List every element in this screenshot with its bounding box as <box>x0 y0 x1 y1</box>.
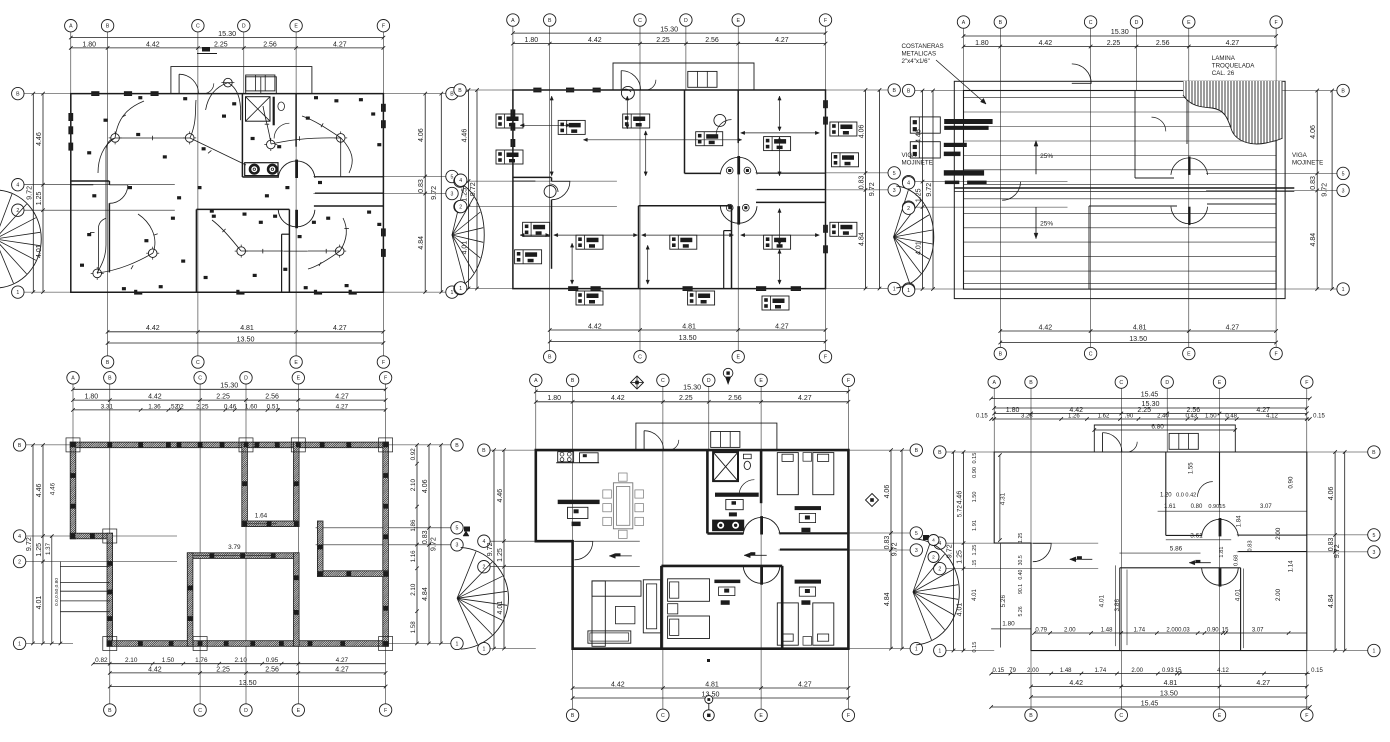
foundation wall at E bath (plan 4) <box>294 442 300 526</box>
pin marker bottom (plan 5) <box>705 696 713 704</box>
pin marker bottom2 (plan 5) <box>707 659 710 662</box>
entry door arc (plan 6) <box>1102 433 1104 452</box>
svg-text:2.56: 2.56 <box>705 37 719 44</box>
sofa set and coffee table (plan 5) <box>592 581 641 596</box>
column grid bubbles bottom (plan 5 furniture) <box>566 709 578 721</box>
bottom segment dimensions (plan 4 foundation) <box>110 672 386 674</box>
column grid extension lines (plan 5 furniture) <box>535 387 537 451</box>
opening tag box (plan 2) <box>670 235 697 249</box>
interior jog wall A-B (plan 1) <box>71 180 110 182</box>
svg-text:F: F <box>1275 351 1278 357</box>
left dimension line 4.46/1.25/4.01 (plan 4 foundation) <box>42 445 44 644</box>
svg-text:1.50: 1.50 <box>972 491 978 502</box>
room label tag top-right (plan 5) <box>795 506 821 510</box>
spiral stair fan (between plans 4 and 5) <box>461 547 509 649</box>
svg-text:4.42: 4.42 <box>146 325 160 332</box>
svg-text:0.79: 0.79 <box>1035 628 1047 634</box>
conduit tick marks (plan 1) <box>152 136 154 141</box>
svg-text:LAMINA: LAMINA <box>1212 55 1236 62</box>
svg-text:2.00: 2.00 <box>1027 668 1039 674</box>
svg-text:1.80: 1.80 <box>85 394 99 401</box>
svg-text:4.42: 4.42 <box>1069 680 1083 687</box>
svg-text:0.93: 0.93 <box>1162 668 1174 674</box>
svg-text:2.000.03: 2.000.03 <box>1166 628 1190 634</box>
svg-text:4.42: 4.42 <box>588 323 602 330</box>
top segment dimensions 1.80/4.42/2.25/2.56/4.27 (plan 2 openings) <box>513 43 826 45</box>
right dimension line 4.06/0.83/4.84 (plan 2 openings) <box>865 90 867 289</box>
svg-text:6.80: 6.80 <box>1151 424 1164 431</box>
svg-text:4.42: 4.42 <box>1039 324 1053 331</box>
svg-text:4.01: 4.01 <box>1099 594 1106 607</box>
svg-text:4: 4 <box>459 178 462 184</box>
interior wall at B lower (plan 1) <box>108 203 110 272</box>
svg-text:B: B <box>458 88 462 94</box>
svg-text:0.15: 0.15 <box>992 668 1004 674</box>
svg-text:0.82: 0.82 <box>95 657 108 664</box>
window dashes on walls (plan 1) <box>68 113 70 121</box>
column grid bubbles top (plan 5 furniture) <box>530 374 542 386</box>
svg-text:2.25: 2.25 <box>1137 407 1151 414</box>
right overall dimension 9.72 (plan 5 furniture) <box>901 450 903 648</box>
svg-text:2.25: 2.25 <box>679 395 693 402</box>
svg-text:2: 2 <box>907 206 910 212</box>
svg-text:C: C <box>1089 20 1093 26</box>
svg-text:13.50: 13.50 <box>679 333 697 342</box>
svg-text:C: C <box>1119 713 1123 719</box>
svg-text:1.50: 1.50 <box>162 657 175 664</box>
column grid extension lines (plan 6 dimensions) <box>993 388 995 452</box>
svg-text:F: F <box>384 376 387 382</box>
top segment dimensions 1.80/4.42/2.25/2.56/4.27 (plan 3 roof) <box>964 46 1277 48</box>
foundation wall bottom (plan 4) <box>107 641 388 647</box>
svg-text:13.50: 13.50 <box>239 678 257 687</box>
roof fascia outline (plan 3) <box>954 81 1285 298</box>
svg-text:0.90: 0.90 <box>1207 628 1219 634</box>
svg-text:D: D <box>242 24 246 30</box>
svg-text:4.06: 4.06 <box>859 124 866 138</box>
svg-text:4.46: 4.46 <box>462 129 469 143</box>
shower with X (plan 5) <box>713 452 738 481</box>
outer dim 15.45 (plan 6) <box>991 398 1310 400</box>
svg-text:0.15: 0.15 <box>976 414 988 420</box>
svg-text:0.40: 0.40 <box>1018 569 1024 579</box>
column grid bubbles top (plan 2 openings) <box>507 14 519 26</box>
svg-text:15.30: 15.30 <box>660 24 678 33</box>
svg-text:E: E <box>297 708 301 714</box>
svg-text:1: 1 <box>938 648 941 654</box>
svg-text:B: B <box>571 713 575 719</box>
bathroom walls (plan 6) <box>1165 452 1167 535</box>
svg-text:A: A <box>962 20 966 26</box>
small bubbles pair gap 5-6 <box>928 535 939 546</box>
bottom segment dimensions (plan 2 openings) <box>550 329 826 331</box>
svg-text:5.26: 5.26 <box>1018 606 1024 616</box>
svg-text:1.86: 1.86 <box>410 519 417 532</box>
svg-text:4.01: 4.01 <box>957 603 964 617</box>
column grid bubbles bottom (plan 2 openings) <box>544 351 556 363</box>
svg-text:1.61: 1.61 <box>1164 504 1176 510</box>
svg-text:1: 1 <box>907 288 910 294</box>
svg-text:1: 1 <box>16 290 19 296</box>
svg-text:B: B <box>106 360 110 366</box>
svg-text:1: 1 <box>915 647 918 653</box>
door arc top (plan 3) <box>1072 64 1091 83</box>
hall semicircular wall lower (plan 2) <box>720 206 757 223</box>
svg-text:D: D <box>707 378 711 384</box>
svg-text:15.30: 15.30 <box>220 381 238 390</box>
top overall dimension 15.30 (plan 3 roof) <box>964 35 1277 37</box>
svg-text:F: F <box>824 18 827 24</box>
svg-text:2.10: 2.10 <box>410 479 417 492</box>
extra receptacle marks (plan 1) <box>232 102 236 105</box>
svg-text:1.20: 1.20 <box>1160 493 1172 499</box>
toilet (plan 5) <box>744 461 750 469</box>
column grid bubbles top (plan 6 dimensions) <box>988 376 1000 388</box>
svg-text:C: C <box>661 713 665 719</box>
svg-text:F: F <box>1305 380 1308 386</box>
slope arrow 25% up (plan 3) <box>1035 141 1037 175</box>
interior door arc at B wall (plan 2) <box>552 181 570 199</box>
svg-text:1: 1 <box>456 641 459 647</box>
hall semicircular wall lower (plan 5) <box>743 566 780 583</box>
svg-text:E: E <box>1218 713 1222 719</box>
svg-text:C: C <box>638 18 642 24</box>
opening tag box (plan 2) <box>762 296 789 310</box>
svg-text:1.14: 1.14 <box>1288 560 1295 573</box>
spiral stair fan (left sheet edge) <box>0 190 41 288</box>
svg-text:3.31: 3.31 <box>101 403 114 410</box>
porch canopy (plan 5) <box>636 423 777 450</box>
svg-text:3: 3 <box>456 543 459 549</box>
row extension lines left (plan 3 roof) <box>915 90 964 92</box>
svg-text:4.42: 4.42 <box>148 666 162 673</box>
conduit wiring curves (plan 1) <box>115 101 144 138</box>
kitchen partition (plan 1) <box>71 184 94 186</box>
svg-text:F: F <box>382 360 385 366</box>
opening tag box (plan 2) <box>696 132 723 146</box>
svg-text:A: A <box>69 24 73 30</box>
nightstand top-right (plan 5) <box>803 453 812 462</box>
corridor wall row5 (plan 2) <box>757 172 826 174</box>
svg-text:25%: 25% <box>1040 220 1053 227</box>
svg-text:1.37: 1.37 <box>45 542 52 555</box>
top segment dimensions 1.80/4.42/2.25/2.56/4.27 (plan 4 foundation) <box>73 399 386 401</box>
svg-text:4.81: 4.81 <box>1133 324 1147 331</box>
svg-text:15.30: 15.30 <box>1111 27 1129 36</box>
svg-text:1.36: 1.36 <box>148 403 161 410</box>
bedroom walls right (plan 2) <box>756 201 826 203</box>
svg-text:0.80: 0.80 <box>1191 504 1203 510</box>
interior dim 6.80 (plan 6) <box>1094 429 1235 431</box>
right dimension line 4.06/0.83/4.84 (plan 1 electrical) <box>424 94 426 293</box>
svg-text:5: 5 <box>456 526 459 532</box>
svg-text:0.92: 0.92 <box>410 448 417 461</box>
hall door leaves (plan 1) <box>295 160 298 178</box>
svg-text:5.86: 5.86 <box>1170 546 1183 553</box>
left overall dimension 9.72 (plan 2 openings) <box>476 90 478 289</box>
foundation wall top (plan 4) <box>70 442 388 448</box>
svg-text:B: B <box>482 448 486 454</box>
closet shelves top wall (plan 1) <box>246 77 277 94</box>
bed 2 bottom-right room (plan 5) <box>813 603 834 645</box>
foundation wall jog at row 4 (plan 4) <box>70 533 112 539</box>
bath door arc (plan 5) <box>739 480 754 495</box>
bottom overall dimension 13.50 (plan 5 furniture) <box>573 697 849 699</box>
svg-text:E: E <box>1218 380 1222 386</box>
bed 1 bottom-middle room horizontal (plan 5) <box>668 579 710 602</box>
room label tag bottom-right (plan 5) <box>795 580 821 584</box>
svg-text:1.55: 1.55 <box>1188 462 1194 474</box>
interior door arc at B (plan 3) <box>1002 182 1020 200</box>
row extension lines left (plan 1 electrical) <box>24 93 71 95</box>
column grid bubbles bottom (plan 4 foundation) <box>104 704 116 716</box>
top overall dimension 15.30 (plan 6 dimensions) <box>994 407 1307 409</box>
gap bubbles right of plan2 fan (rows 4/2/1) <box>902 177 914 189</box>
top overall dimension 15.30 (plan 1 electrical) <box>71 37 384 39</box>
svg-text:B: B <box>1372 450 1376 456</box>
svg-text:0.90: 0.90 <box>972 467 978 478</box>
svg-text:0.9015: 0.9015 <box>1208 504 1225 510</box>
svg-text:2.10: 2.10 <box>125 657 138 664</box>
porch closet shelves (plan 2) <box>688 71 717 87</box>
svg-text:2.40: 2.40 <box>1157 414 1169 420</box>
svg-text:4.31: 4.31 <box>999 492 1006 505</box>
svg-text:4.27: 4.27 <box>336 657 349 664</box>
right overall dimension 9.72 (plan 4 foundation) <box>440 445 442 644</box>
kitchen bar island (plan 5) <box>558 500 600 504</box>
svg-text:1.25: 1.25 <box>957 550 964 564</box>
svg-text:1.48: 1.48 <box>1060 668 1072 674</box>
outer walls (plan 6) <box>994 452 1307 651</box>
svg-text:1.58: 1.58 <box>410 621 417 634</box>
bed 2 bottom-middle room horizontal (plan 5) <box>668 616 710 639</box>
opening tag box (plan 2) <box>496 114 523 128</box>
costanera detail black bars (plan 3) <box>944 119 992 124</box>
foundation stub vertical (plan 4) <box>317 521 323 576</box>
svg-text:2.25: 2.25 <box>1107 40 1121 47</box>
row extension lines left (plan 4 foundation) <box>26 444 73 446</box>
ceiling lamp outlets (plan 1) <box>111 134 120 143</box>
svg-text:B: B <box>108 376 112 382</box>
svg-text:1.48: 1.48 <box>1101 628 1113 634</box>
porch closet shelves (plan 6) <box>1169 433 1198 449</box>
footing outline squares (plan 4) <box>66 438 80 452</box>
marker arrow hall (plan 6) <box>1195 560 1200 563</box>
svg-text:A: A <box>71 376 75 382</box>
room span arrows vertical (plan 2) <box>551 96 553 176</box>
row grid bubbles right B/5/3/1 (plan 4 foundation) <box>451 439 463 451</box>
bedroom walls right (plan 1) <box>314 205 384 207</box>
svg-text:4.42: 4.42 <box>148 394 162 401</box>
footing column squares (plan 4) <box>71 443 76 448</box>
svg-text:5: 5 <box>1342 171 1345 177</box>
svg-text:1.25: 1.25 <box>36 191 43 205</box>
svg-text:4.84: 4.84 <box>884 592 891 606</box>
svg-text:B: B <box>1029 713 1033 719</box>
corridor wall row3 (plan 5) <box>780 549 849 551</box>
svg-text:0.83: 0.83 <box>1310 176 1317 190</box>
svg-text:A: A <box>511 18 515 24</box>
top overall dimension 15.30 (plan 2 openings) <box>513 32 826 34</box>
extra top dims row 3.31/1.36/0.52/2.25/0.46/1.60/0.51/4.27 (plan 4) <box>73 409 386 411</box>
row grid bubbles left B/4/2/1 (plan 6 dimensions) <box>934 446 946 458</box>
interior door arc at B wall (plan 5) <box>574 541 592 559</box>
svg-text:2.00: 2.00 <box>1275 527 1282 540</box>
right dimension line 4.06/0.83/4.84 (plan 6 dimensions) <box>1334 452 1336 651</box>
svg-text:4.84: 4.84 <box>1328 594 1335 608</box>
svg-text:1.80: 1.80 <box>82 41 96 48</box>
bath door arc (plan 1) <box>274 123 289 138</box>
svg-text:4.84: 4.84 <box>859 232 866 246</box>
svg-text:4.01: 4.01 <box>1234 588 1241 601</box>
svg-text:B: B <box>450 92 454 98</box>
svg-text:3.07: 3.07 <box>1260 504 1272 510</box>
svg-text:4.81: 4.81 <box>705 681 719 688</box>
svg-text:1: 1 <box>1342 287 1345 293</box>
corridor wall row5 (plan 6) <box>1238 534 1307 536</box>
svg-text:F: F <box>847 378 850 384</box>
svg-text:A: A <box>534 378 538 384</box>
gap bubbles right of plan1 fan (rows 4/2/1) <box>455 174 467 186</box>
svg-text:15: 15 <box>1222 628 1229 634</box>
roof wall outline (plan 3) <box>964 91 1277 290</box>
bedroom walls bottom-middle (plan 5) <box>661 565 782 568</box>
left dimension line 4.46/1.25/4.01 (plan 6 dimensions) <box>963 452 965 651</box>
kitchen partition (plan 2) <box>513 180 536 182</box>
svg-text:4: 4 <box>16 183 19 189</box>
svg-text:5.72: 5.72 <box>957 505 964 518</box>
exterior stair steps (plan 4) <box>60 565 109 567</box>
left dimension line 4.46/1.25/4.01 (plan 2 openings) <box>468 90 470 289</box>
window dashes on walls (plan 2) <box>510 109 512 117</box>
pin marker top (plan 5) <box>723 368 733 378</box>
right overall dimension 9.72 (plan 2 openings) <box>879 90 881 289</box>
svg-text:3: 3 <box>1342 188 1345 194</box>
svg-text:0.51: 0.51 <box>267 403 280 410</box>
corridor wall row3 (plan 2) <box>757 189 826 191</box>
svg-text:4.27: 4.27 <box>1226 40 1240 47</box>
svg-text:B: B <box>1029 380 1033 386</box>
svg-text:F: F <box>824 355 827 361</box>
svg-text:4.01: 4.01 <box>497 601 504 615</box>
svg-text:2.56: 2.56 <box>1156 40 1170 47</box>
right dimension line 4.06/0.83/4.84 (plan 4 foundation) <box>428 445 430 644</box>
lavatory black band with sinks (plan 1) <box>245 163 278 176</box>
svg-text:1.74: 1.74 <box>1133 628 1145 634</box>
lamp circle bath (plan 2) <box>714 114 726 126</box>
outer walls (plan 2) <box>513 90 826 289</box>
left overall dimension 9.72 (plan 3 roof) <box>932 91 934 290</box>
svg-text:2.00: 2.00 <box>1275 588 1282 601</box>
svg-text:4.42: 4.42 <box>146 41 160 48</box>
svg-text:E: E <box>736 355 740 361</box>
svg-text:4.46: 4.46 <box>957 491 964 505</box>
hall semicircular wall upper (plan 2) <box>720 157 757 174</box>
conduit link bottom lamps (plan 1) <box>283 250 308 252</box>
opening tag box (plan 2) <box>496 150 523 164</box>
svg-text:2: 2 <box>18 559 21 565</box>
corridor wall row5 (plan 1) <box>315 176 384 178</box>
bed 1 bottom-right room (plan 5) <box>777 603 798 645</box>
bedroom walls bottom-middle (plan 2) <box>639 205 732 207</box>
svg-text:4: 4 <box>907 181 910 187</box>
svg-text:4.27: 4.27 <box>333 325 347 332</box>
svg-text:2.25: 2.25 <box>196 403 209 410</box>
row grid bubbles right B/5/3/1 (plan 6 dimensions) <box>1368 446 1380 458</box>
column grid bubbles bottom (plan 6 dimensions) <box>1025 709 1037 721</box>
svg-text:B: B <box>16 92 20 98</box>
troquelada sheet hatch region (plan 3) <box>1183 81 1283 144</box>
hall semicircular wall upper (plan 6) <box>1202 519 1239 536</box>
svg-text:A: A <box>992 380 996 386</box>
svg-text:1: 1 <box>893 286 896 292</box>
svg-text:5: 5 <box>1372 533 1375 539</box>
top overall dimension 15.30 (plan 4 foundation) <box>73 388 386 390</box>
row grid bubbles right B/5/3/1 (plan 2 openings) <box>888 84 900 96</box>
svg-text:4.27: 4.27 <box>775 323 789 330</box>
room label tag bottom-middle (plan 5) <box>714 580 740 584</box>
svg-text:1.80: 1.80 <box>547 395 561 402</box>
svg-text:9.72: 9.72 <box>24 186 33 200</box>
svg-text:4.27: 4.27 <box>1256 680 1270 687</box>
shower box with X (plan 1) <box>246 97 271 122</box>
right extra dim texts 0.92/2.10/1.86/1.16/2.10/1.58 (plan 4) <box>416 445 418 644</box>
svg-text:2.25: 2.25 <box>216 666 230 673</box>
svg-text:4.46: 4.46 <box>36 483 43 497</box>
kitchen partition (plan 5) <box>536 540 559 542</box>
svg-text:9.72: 9.72 <box>924 183 933 197</box>
hall door leaves (plan 2) <box>737 156 740 174</box>
svg-text:4.27: 4.27 <box>798 395 812 402</box>
svg-text:F: F <box>1305 713 1308 719</box>
svg-text:25%: 25% <box>1040 153 1053 160</box>
svg-text:1: 1 <box>1372 648 1375 654</box>
svg-text:4.84: 4.84 <box>418 236 425 250</box>
toilet (plan 1) <box>278 102 285 111</box>
svg-text:1.26: 1.26 <box>1068 414 1080 420</box>
svg-text:B: B <box>548 355 552 361</box>
marker arrow living (plan 6) <box>1077 556 1082 559</box>
svg-text:B: B <box>571 378 575 384</box>
svg-text:1.60: 1.60 <box>245 403 258 410</box>
svg-text:5.26: 5.26 <box>1000 594 1007 607</box>
row extension lines left (plan 5 furniture) <box>490 449 536 451</box>
svg-text:C: C <box>1119 380 1123 386</box>
svg-text:MOJINETE: MOJINETE <box>1292 160 1323 167</box>
svg-text:1.74: 1.74 <box>1095 668 1107 674</box>
svg-text:4.42: 4.42 <box>611 395 625 402</box>
svg-text:3: 3 <box>451 191 454 197</box>
svg-text:0.0,0.50,0.80: 0.0,0.50,0.80 <box>54 578 60 606</box>
svg-text:4.27: 4.27 <box>798 681 812 688</box>
leader arrow costaneras (plan 3) <box>936 60 986 104</box>
svg-text:E: E <box>1187 351 1191 357</box>
svg-text:9.72: 9.72 <box>429 186 438 200</box>
svg-text:15.30: 15.30 <box>218 29 236 38</box>
svg-text:D: D <box>244 376 248 382</box>
svg-text:0.83: 0.83 <box>1248 540 1254 551</box>
spiral stair fan (between plans 2 and 3) <box>896 186 933 288</box>
svg-text:VIGA: VIGA <box>1292 152 1308 159</box>
svg-text:1.84: 1.84 <box>1236 515 1242 527</box>
svg-text:30.5: 30.5 <box>1018 555 1024 565</box>
svg-text:4.06: 4.06 <box>422 479 429 493</box>
svg-text:5: 5 <box>915 531 918 537</box>
bed 1 top-right room (plan 5) <box>777 453 798 495</box>
column grid bubbles top (plan 1 electrical) <box>65 20 77 32</box>
hall semicircular wall lower (plan 1) <box>278 210 315 227</box>
porch canopy (plan 2) <box>613 63 754 90</box>
